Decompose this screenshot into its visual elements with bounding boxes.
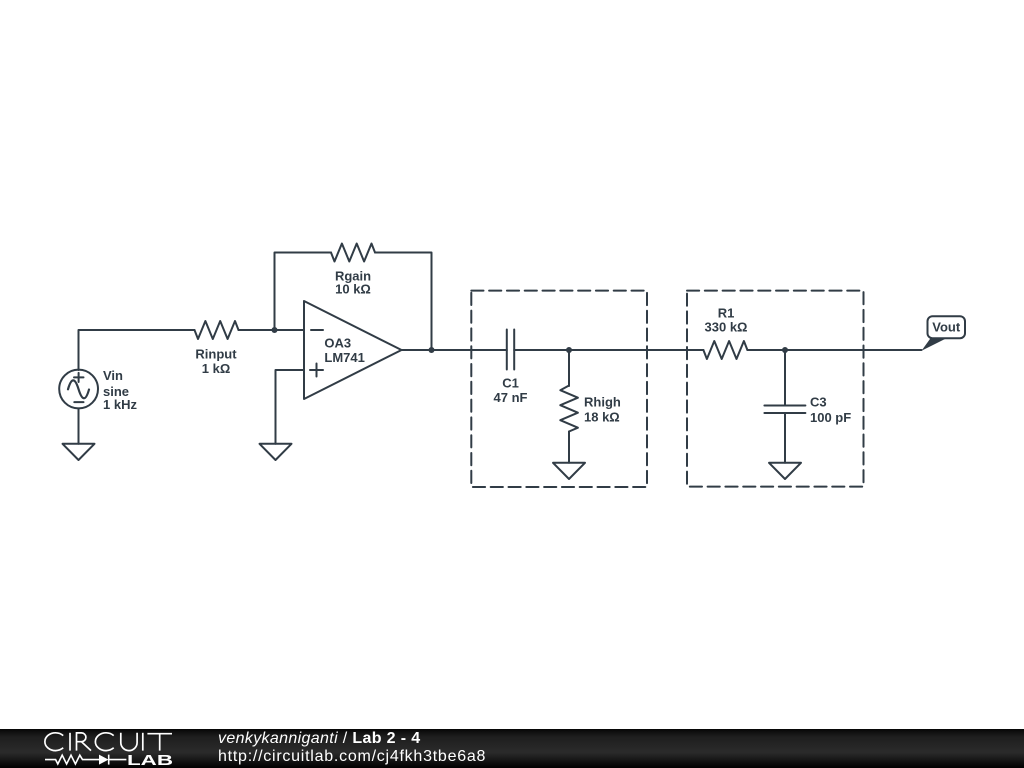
- resistor Rgain: [331, 244, 375, 262]
- wire C1 to junction and on to R1: [514, 349, 703, 351]
- capacitor C1: [506, 330, 508, 370]
- ground (source): [63, 444, 95, 460]
- ground (Rhigh): [553, 463, 585, 479]
- labels: [103, 268, 961, 425]
- feedback wire left vertical: [275, 253, 332, 331]
- resistor Rinput: [195, 321, 239, 339]
- Vout flag: [922, 338, 947, 351]
- resistor R1: [703, 341, 747, 359]
- minus symbol: [311, 329, 323, 331]
- wire source to ground: [78, 408, 80, 443]
- svg-text:LAB: LAB: [127, 753, 173, 768]
- node junction at Rhigh top: [566, 347, 572, 353]
- capacitor C3: [764, 405, 805, 407]
- ground (op-amp): [260, 444, 292, 460]
- op-amp OA3 triangle: [304, 301, 402, 399]
- voltage source V1 Vin: [59, 370, 98, 409]
- footer bar: [0, 729, 1024, 768]
- plus symbol: [310, 369, 323, 371]
- node junction at minus input: [272, 327, 278, 333]
- wire R1 to Vout: [747, 349, 921, 351]
- wire C3 to ground: [784, 413, 786, 463]
- wire plus input to ground: [276, 370, 305, 444]
- resistor Rhigh (vertical): [560, 386, 578, 432]
- node junction at output: [429, 347, 435, 353]
- feedback wire right vertical: [375, 253, 432, 351]
- wire Rhigh to ground: [568, 432, 570, 463]
- CircuitLab logo: CIRCUIT: [45, 733, 172, 751]
- wire input from Vin to op-amp minus: [79, 330, 195, 370]
- dashed box 2: [687, 291, 864, 487]
- dashed box 1: [471, 291, 647, 487]
- wire junction down to C3: [784, 350, 786, 406]
- logo resistor-diode glyph: [45, 755, 126, 765]
- wire Rinput to op-amp: [239, 329, 305, 331]
- footer line 1: username / title: [218, 730, 420, 748]
- ground (C3): [769, 463, 801, 479]
- footer line 2: url: [218, 748, 486, 766]
- wire junction down to Rhigh: [568, 350, 570, 386]
- wire op-amp output to C1: [402, 349, 507, 351]
- node junction at C3 top: [782, 347, 788, 353]
